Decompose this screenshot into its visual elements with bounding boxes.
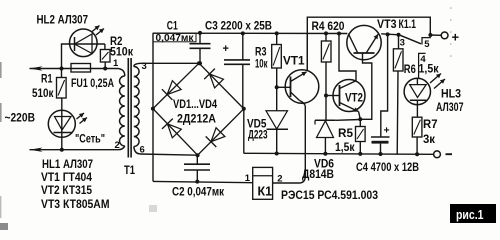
- wire lower bus to K1: [153, 181, 253, 182]
- fuse FU1: [71, 64, 91, 73]
- svg-text:Д814В: Д814В: [302, 167, 334, 181]
- node bridge top: [197, 61, 201, 65]
- transformer T1 secondary winding: [134, 63, 140, 66]
- resistor R5: [359, 119, 361, 126]
- svg-text:10к: 10к: [255, 57, 268, 71]
- svg-text:+: +: [223, 43, 229, 55]
- wire rail to VT2 collector: [339, 34, 356, 81]
- LED HL2: [70, 29, 98, 57]
- svg-text:3к: 3к: [423, 132, 436, 146]
- node bridge left: [151, 107, 155, 111]
- svg-text:HL1 АЛ307: HL1 АЛ307: [42, 157, 93, 171]
- svg-text:5: 5: [424, 39, 430, 50]
- terminal minus: [434, 151, 441, 158]
- resistor R6: [398, 35, 400, 49]
- svg-text:HL2 АЛ307: HL2 АЛ307: [37, 13, 89, 27]
- bridge rectifier diamond: [153, 63, 244, 155]
- svg-text:VT1 ГТ404: VT1 ГТ404: [41, 170, 92, 184]
- relay coil K1: [253, 167, 273, 199]
- svg-text:2Д212А: 2Д212А: [177, 112, 216, 126]
- svg-text:510к: 510к: [110, 45, 134, 59]
- wire pin6 to bridge bottom: [140, 154, 198, 155]
- resistor R2: [100, 50, 110, 63]
- diode VD3: [167, 124, 181, 138]
- wire VT3 emitter to blade pivot: [381, 34, 399, 35]
- svg-text:К1: К1: [258, 184, 273, 198]
- contact pin 4: [419, 53, 426, 78]
- zener VD6: [315, 119, 336, 121]
- svg-text:510к: 510к: [32, 86, 54, 100]
- contact pin 5: [422, 38, 431, 45]
- svg-text:VT2: VT2: [345, 93, 363, 105]
- svg-text:1: 1: [245, 173, 251, 184]
- node VT2 base junction: [324, 94, 328, 98]
- svg-text:VT2 КТ315: VT2 КТ315: [41, 183, 92, 197]
- svg-text:К1.1: К1.1: [399, 17, 417, 31]
- page artifacts: [450, 7, 452, 57]
- LED HL3: [404, 78, 430, 104]
- svg-text:1: 1: [113, 58, 119, 69]
- svg-text:РЭС15 РС4.591.003: РЭС15 РС4.591.003: [281, 188, 378, 202]
- wire top rail: [153, 32, 347, 34]
- transistor VT3: [347, 25, 381, 59]
- caption рис.1: [450, 204, 496, 223]
- transistor VT2: [326, 95, 340, 97]
- transformer core: [127, 58, 129, 158]
- svg-text:R5: R5: [338, 126, 353, 140]
- wire top feed line to switch: [307, 17, 430, 70]
- svg-text:C3 2200 x 25В: C3 2200 x 25В: [205, 19, 272, 33]
- resistor R1: [61, 69, 63, 78]
- resistor R3: [276, 33, 278, 44]
- svg-text:~220В: ~220В: [5, 111, 36, 125]
- wire left vertical bus: [152, 33, 154, 181]
- svg-text:2: 2: [277, 173, 282, 184]
- wire HL2 left lead: [62, 44, 105, 69]
- wire upper mains wire with arrow: [30, 68, 119, 70]
- diode VD4: [211, 128, 225, 142]
- svg-text:2: 2: [115, 140, 120, 151]
- wire VT3 base: [360, 53, 372, 119]
- wire VT1 emitter to K1 coil: [273, 101, 306, 184]
- resistor R7: [412, 117, 422, 137]
- svg-text:0,047мк: 0,047мк: [156, 33, 195, 44]
- wire right vertex drop: [243, 109, 245, 154]
- svg-text:R4 620: R4 620: [312, 19, 345, 33]
- svg-text:HL3: HL3: [441, 86, 461, 100]
- svg-text:R1: R1: [41, 72, 53, 86]
- transistor VT1: [277, 86, 291, 88]
- svg-text:VD1...VD4: VD1...VD4: [173, 99, 217, 111]
- svg-text:"Сеть": "Сеть": [75, 132, 105, 146]
- node bridge right: [242, 107, 246, 111]
- svg-text:+: +: [384, 125, 390, 137]
- svg-text:рис.1: рис.1: [456, 207, 484, 222]
- transformer T1 primary winding: [118, 69, 125, 77]
- node VT1 base junction: [275, 85, 279, 89]
- diode VD2: [210, 74, 224, 88]
- svg-text:C2 0,047мк: C2 0,047мк: [172, 184, 225, 198]
- wire VD6 to emitter node: [336, 119, 361, 122]
- capacitor C4: [381, 34, 388, 137]
- diode VD5: [266, 111, 288, 129]
- svg-text:АЛ307: АЛ307: [436, 100, 464, 114]
- capacitor C1: [199, 33, 201, 44]
- svg-text:Т1: Т1: [124, 163, 135, 177]
- svg-text:C4 4700 x 12В: C4 4700 x 12В: [356, 160, 419, 174]
- svg-text:VT3 КТ805АМ: VT3 КТ805АМ: [41, 197, 110, 211]
- svg-text:C1: C1: [167, 19, 178, 33]
- svg-text:FU1 0,25А: FU1 0,25А: [71, 76, 114, 90]
- svg-text:VT1: VT1: [283, 54, 305, 68]
- wire pin3 to bridge top: [140, 62, 199, 64]
- wire lower mains wire with arrow: [30, 149, 119, 151]
- node VT2 emitter junction: [359, 112, 361, 120]
- svg-text:Д223: Д223: [248, 127, 268, 141]
- svg-text:R7: R7: [423, 117, 438, 131]
- svg-text:+: +: [452, 29, 460, 44]
- capacitor C2: [196, 155, 198, 164]
- svg-text:3: 3: [400, 37, 405, 48]
- svg-text:VT3: VT3: [377, 17, 397, 31]
- node R1/HL2 junction: [60, 67, 64, 71]
- LED HL1: [61, 98, 63, 150]
- capacitor C3: [242, 33, 244, 59]
- diode VD1: [167, 81, 181, 95]
- label box C1 value: [153, 33, 196, 42]
- wire bottom rail: [244, 153, 434, 154]
- terminal plus: [430, 34, 441, 36]
- switch blade K1.1: [399, 35, 421, 44]
- wire HL2 right lead: [104, 44, 106, 50]
- svg-text:R6: R6: [404, 62, 416, 76]
- svg-text:1,5к: 1,5к: [335, 140, 355, 154]
- svg-text:1,5к: 1,5к: [419, 61, 440, 75]
- node bridge bottom: [196, 153, 200, 157]
